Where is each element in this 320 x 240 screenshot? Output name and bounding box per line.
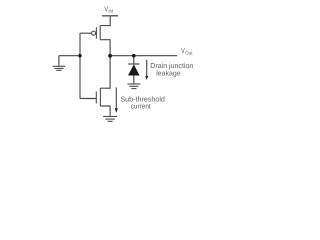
nmos Q2 drain wire to output node <box>100 56 110 88</box>
svg-text:Out: Out <box>185 51 193 56</box>
junction dot output node <box>108 54 112 58</box>
wire diode branch <box>133 56 135 64</box>
diode D1 body <box>128 64 140 75</box>
wire Vdd stem to PMOS source <box>100 16 110 25</box>
label Sub-threshold current <box>120 94 165 110</box>
nmos Q2 gate plate <box>95 91 97 103</box>
wire gate node vertical <box>79 33 81 98</box>
pmos Q1 drain wire to output node <box>100 40 110 56</box>
label Drain junction leakage <box>150 61 193 78</box>
pmos Q1 gate bubble <box>92 31 96 35</box>
pmos Q1 gate plate <box>95 27 97 39</box>
nmos Q2 channel <box>99 88 101 106</box>
VOut label <box>181 46 193 55</box>
arrow sub-threshold current shaft <box>115 88 117 109</box>
Vdd supply bar <box>102 15 118 17</box>
svg-text:current: current <box>131 101 151 110</box>
wire input to gate node <box>59 55 80 57</box>
wire output <box>110 55 177 57</box>
Vdd label <box>104 5 113 14</box>
arrow drain junction leakage head <box>145 76 148 80</box>
nmos Q2 gate wire <box>80 98 96 100</box>
ground input <box>53 66 66 70</box>
arrow sub-threshold current head <box>115 108 118 113</box>
arrow drain junction leakage shaft <box>146 60 148 77</box>
wire PMOS gate <box>80 32 92 34</box>
ground NMOS source <box>103 117 117 122</box>
nmos Q2 source wire <box>100 106 110 116</box>
diode D1 cathode bar <box>128 63 139 65</box>
svg-text:leakage: leakage <box>156 68 180 77</box>
junction dot diode branch <box>132 54 136 58</box>
junction dot input node <box>78 54 81 57</box>
pmos Q1 channel <box>99 26 101 40</box>
svg-text:dd: dd <box>108 9 113 14</box>
ground diode <box>127 84 140 89</box>
wire diode anode to ground <box>133 75 135 84</box>
ground input stem <box>58 56 60 66</box>
